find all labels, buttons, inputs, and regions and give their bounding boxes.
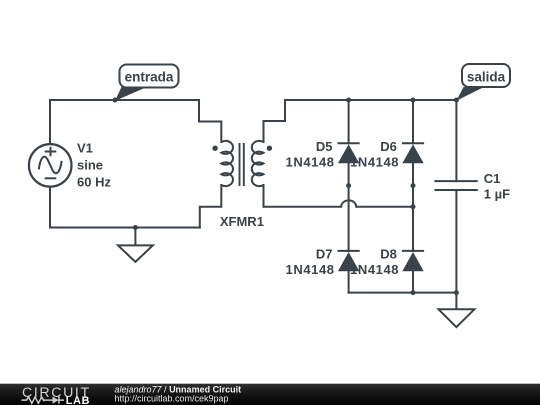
wire top right horizontal: [285, 99, 456, 101]
transformer secondary phase dot: [267, 146, 272, 151]
voltage source V1: [29, 144, 72, 187]
svg-text:sine: sine: [77, 158, 103, 173]
node ground left junction: [133, 225, 138, 230]
diode D8: [402, 251, 424, 271]
wire salida vertical upper: [455, 100, 457, 181]
transformer secondary winding: [252, 141, 264, 186]
net flag salida: [456, 64, 510, 101]
footer bar: [0, 384, 540, 405]
svg-text:1N4148: 1N4148: [350, 154, 399, 169]
svg-text:entrada: entrada: [125, 70, 174, 85]
wire right branch middle: [412, 163, 414, 251]
svg-text:XFMR1: XFMR1: [220, 214, 264, 229]
node top left bridge junction: [346, 98, 351, 103]
wire bottom horizontal: [50, 227, 200, 229]
svg-text:D6: D6: [380, 139, 397, 154]
wire entrada top horizontal: [50, 99, 199, 101]
svg-text:D7: D7: [316, 247, 333, 262]
svg-text:V1: V1: [77, 141, 93, 156]
svg-text:60 Hz: 60 Hz: [77, 174, 111, 189]
transformer primary phase dot: [212, 146, 217, 151]
wire salida vertical lower: [455, 190, 457, 293]
svg-text:D5: D5: [316, 139, 333, 154]
capacitor C1: [434, 181, 477, 190]
node D6 anode junction: [411, 183, 416, 188]
svg-text:1 µF: 1 µF: [484, 187, 510, 202]
wire middle horizontal with hop: [264, 200, 414, 206]
wire secondary top lead: [264, 100, 286, 142]
wire left branch middle: [348, 163, 350, 251]
net flag entrada: [115, 65, 179, 101]
CircuitLab logo: [22, 385, 91, 405]
svg-text:http://circuitlab.com/cek9pap: http://circuitlab.com/cek9pap: [115, 393, 229, 403]
wire right branch upper: [412, 100, 414, 143]
transformer primary winding: [221, 141, 233, 186]
wire bottom right horizontal: [349, 292, 457, 294]
wire right branch lower: [412, 271, 414, 292]
node middle right junction: [411, 204, 416, 209]
node entrada junction: [113, 98, 118, 103]
node bottom right branch junction: [411, 290, 416, 295]
transformer XFMR1: [221, 141, 263, 186]
svg-text:C1: C1: [484, 171, 501, 186]
wire primary top lead: [199, 100, 221, 142]
diode D5: [338, 143, 360, 163]
svg-text:1N4148: 1N4148: [350, 262, 399, 277]
node salida junction: [454, 98, 459, 103]
diode D6: [402, 143, 424, 163]
wire entrada left vertical: [49, 100, 51, 144]
wire left branch upper: [348, 100, 350, 143]
node top right bridge junction: [411, 98, 416, 103]
svg-text:D8: D8: [380, 247, 397, 262]
svg-text:1N4148: 1N4148: [286, 262, 335, 277]
node bottom far right junction: [454, 290, 459, 295]
wire primary bottom lead: [200, 185, 222, 228]
wire source bottom lead: [49, 187, 51, 228]
diode D7: [338, 251, 360, 271]
transformer core: [240, 143, 244, 186]
svg-text:salida: salida: [467, 69, 506, 84]
svg-text:LAB: LAB: [66, 395, 91, 405]
wire left branch lower: [348, 271, 350, 292]
wire secondary bottom lead: [263, 185, 265, 207]
svg-text:1N4148: 1N4148: [286, 154, 335, 169]
ground left: [118, 228, 153, 262]
node D5 anode junction: [346, 183, 351, 188]
ground right: [439, 293, 475, 328]
